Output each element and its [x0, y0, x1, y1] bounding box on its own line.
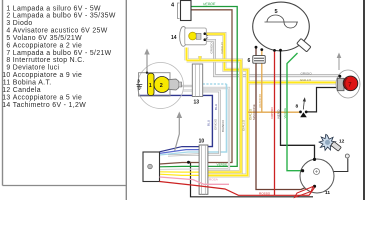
svg-text:ROSSO: ROSSO	[270, 107, 274, 119]
svg-text:NERO: NERO	[276, 109, 280, 119]
svg-text:VERDE: VERDE	[217, 163, 228, 167]
svg-text:Interruttore stop N.C.: Interruttore stop N.C.	[13, 57, 85, 64]
svg-text:Accoppiatore a 2 vie: Accoppiatore a 2 vie	[13, 42, 82, 49]
svg-text:12: 12	[2, 87, 10, 94]
svg-text:6: 6	[248, 58, 251, 64]
svg-text:6: 6	[6, 42, 10, 49]
svg-text:14: 14	[171, 35, 177, 41]
svg-text:Accoppiatore a 9 vie: Accoppiatore a 9 vie	[13, 72, 82, 79]
svg-text:Deviatore luci: Deviatore luci	[13, 65, 60, 72]
svg-text:GIALLO: GIALLO	[220, 42, 224, 54]
svg-text:3: 3	[6, 20, 10, 27]
svg-text:VERDE: VERDE	[283, 108, 287, 119]
svg-text:Avvisatore acustico 6V 25W: Avvisatore acustico 6V 25W	[13, 28, 108, 35]
svg-text:ROSA: ROSA	[209, 177, 219, 181]
svg-text:Lampada a bulbo 6V - 35/35W: Lampada a bulbo 6V - 35/35W	[13, 13, 116, 20]
svg-text:Lampada a bulbo 6V - 5/21W: Lampada a bulbo 6V - 5/21W	[13, 50, 112, 57]
svg-text:2: 2	[160, 83, 163, 89]
svg-text:1: 1	[6, 5, 10, 12]
svg-text:Lampada a siluro 6V - 5W: Lampada a siluro 6V - 5W	[13, 5, 101, 12]
svg-text:5: 5	[6, 35, 10, 42]
svg-text:BIANCO: BIANCO	[221, 120, 225, 132]
svg-text:BLU: BLU	[206, 120, 210, 126]
svg-text:3: 3	[137, 78, 140, 83]
svg-text:GIALLO: GIALLO	[242, 119, 246, 131]
svg-text:BLU: BLU	[214, 104, 218, 110]
svg-text:ARANCIO: ARANCIO	[258, 93, 262, 108]
svg-text:Volano 6V 35/5/21W: Volano 6V 35/5/21W	[13, 35, 82, 42]
svg-text:2: 2	[6, 13, 10, 20]
svg-text:13: 13	[194, 100, 200, 106]
svg-text:Bobina A.T.: Bobina A.T.	[13, 80, 52, 87]
svg-text:GRIGIO: GRIGIO	[301, 72, 313, 76]
svg-text:1: 1	[149, 83, 152, 89]
svg-text:Tachimetro 6V - 1,2W: Tachimetro 6V - 1,2W	[13, 102, 86, 109]
svg-text:MARRONE: MARRONE	[252, 104, 256, 120]
svg-text:9: 9	[6, 65, 10, 72]
svg-text:13: 13	[2, 94, 10, 101]
svg-text:Diodo: Diodo	[13, 20, 33, 27]
svg-text:GIALLO: GIALLO	[300, 78, 312, 82]
svg-text:10: 10	[2, 72, 10, 79]
svg-text:11: 11	[3, 80, 11, 87]
svg-text:5: 5	[275, 9, 278, 15]
svg-text:4: 4	[6, 28, 10, 35]
svg-text:ROSSO: ROSSO	[259, 191, 271, 195]
svg-text:VERDE: VERDE	[203, 2, 216, 6]
svg-text:Accoppiatore a 5 vie: Accoppiatore a 5 vie	[13, 94, 82, 101]
svg-text:14: 14	[2, 102, 10, 109]
svg-text:8: 8	[296, 104, 299, 110]
svg-text:GRIGIO: GRIGIO	[210, 42, 214, 54]
svg-text:12: 12	[339, 139, 345, 145]
svg-text:7: 7	[6, 50, 10, 57]
svg-text:11: 11	[325, 190, 330, 196]
svg-text:GRIGIO: GRIGIO	[214, 118, 218, 130]
svg-text:10: 10	[199, 139, 205, 145]
svg-text:8: 8	[6, 57, 10, 64]
svg-text:Candela: Candela	[13, 87, 41, 94]
